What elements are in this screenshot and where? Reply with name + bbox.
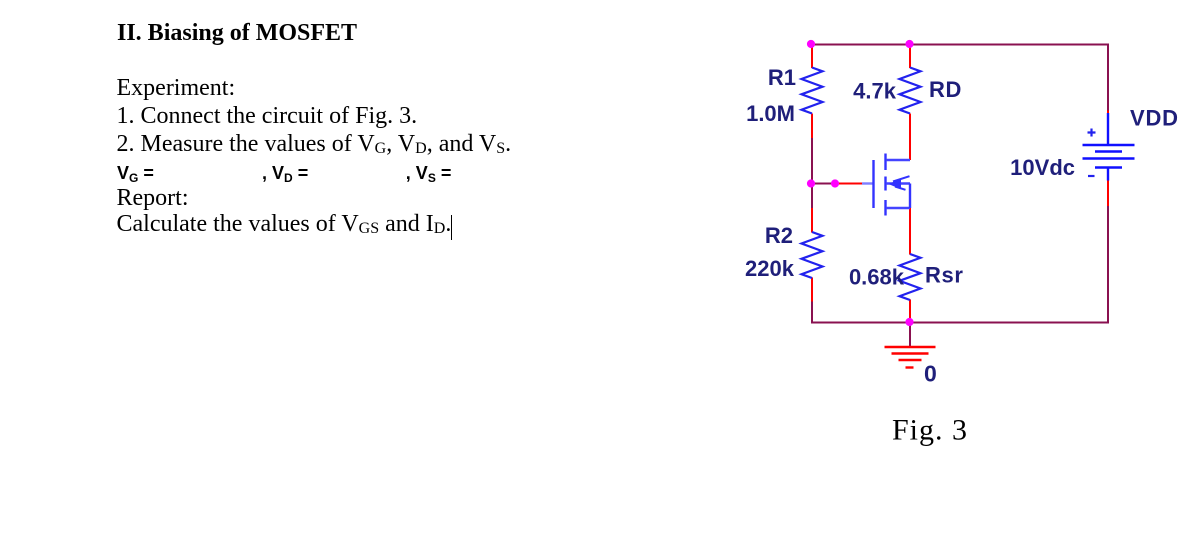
svg-text:VDD: VDD: [1130, 106, 1179, 131]
mosfet M1 drain stub: [886, 159, 910, 161]
paragraph line 5: [117, 186, 189, 210]
pin RD bottom to drain: [909, 114, 911, 161]
junction node top-left: [807, 40, 815, 48]
pin VDD plus: [1107, 111, 1109, 115]
battery VDD plate 2 short: [1095, 150, 1122, 152]
wire left vertical bottom (R2 to bottom rail): [811, 301, 813, 324]
pin R1 bottom: [811, 114, 813, 139]
pin R1 top: [811, 45, 813, 69]
svg-text:Fig. 3: Fig. 3: [892, 414, 968, 447]
formula line VD: [262, 164, 308, 187]
junction node top-middle: [905, 40, 913, 48]
wire right vertical upper: [1107, 44, 1109, 111]
pin R2 top: [811, 208, 813, 233]
paragraph line 2: [117, 104, 418, 128]
formula line VS: [406, 164, 452, 187]
pin RD top: [909, 45, 911, 69]
ground bar 4: [906, 366, 914, 368]
ground bar 2: [892, 352, 929, 354]
paragraph line 3: [117, 132, 512, 161]
battery VDD minus sign: [1088, 175, 1095, 177]
mosfet M1 bulk arrow: [889, 179, 902, 190]
mosfet M1 channel dash top: [884, 154, 886, 171]
battery VDD plate 1 long: [1083, 144, 1135, 147]
svg-text:1.0M: 1.0M: [746, 101, 795, 126]
text cursor caret: [451, 215, 453, 240]
svg-text:RD: RD: [929, 77, 962, 102]
svg-text:220k: 220k: [745, 256, 795, 281]
resistor R2: [802, 232, 823, 278]
wire right vertical lower: [1107, 206, 1109, 324]
svg-text:0.68k: 0.68k: [849, 265, 905, 290]
svg-text:Rsr: Rsr: [925, 263, 964, 288]
svg-text:4.7k: 4.7k: [853, 79, 897, 104]
battery VDD lead top: [1107, 113, 1109, 146]
mosfet M1 bulk-source tie: [909, 184, 911, 209]
mosfet M1 channel dash bottom: [884, 200, 886, 216]
ground bar 1: [885, 346, 936, 348]
resistor RD: [900, 68, 921, 114]
wire gate node horizontal: [812, 183, 835, 185]
mosfet M1 gate bar: [872, 160, 874, 208]
svg-text:10Vdc: 10Vdc: [1010, 155, 1075, 180]
pin source to Rsr: [909, 208, 911, 255]
mosfet M1 channel dash middle: [884, 177, 886, 191]
wire bottom horizontal: [811, 322, 1108, 324]
resistor R1: [802, 68, 823, 114]
formula line VG: [117, 164, 154, 187]
paragraph line 6: [117, 212, 452, 241]
battery VDD lead bottom: [1107, 168, 1109, 181]
pin gate: [835, 183, 862, 185]
battery VDD plate 3 long: [1083, 157, 1135, 160]
battery VDD plus sign: [1088, 129, 1096, 137]
resistor Rsr: [900, 254, 921, 300]
junction node ground: [905, 318, 913, 326]
ground bar 3: [899, 359, 922, 361]
mosfet M1 bulk lead: [886, 182, 910, 184]
pin R2 bottom: [811, 278, 813, 302]
svg-text:0: 0: [924, 361, 937, 387]
wire left vertical (R1 bottom to R2 top node): [811, 138, 813, 209]
battery VDD plate 4 short: [1095, 166, 1122, 168]
ground stem: [909, 323, 911, 348]
junction node gate-left: [807, 179, 815, 187]
pin VDD minus: [1107, 180, 1109, 206]
pin Rsr bottom: [909, 300, 911, 323]
junction node gate-stub: [831, 179, 839, 187]
wire top horizontal: [811, 44, 1108, 46]
mosfet M1 source stub: [886, 207, 910, 209]
heading: [117, 21, 357, 45]
paragraph line 1: [117, 76, 236, 100]
svg-text:R2: R2: [765, 223, 793, 248]
svg-text:R1: R1: [768, 65, 796, 90]
mosfet M1 gate lead: [862, 182, 874, 184]
